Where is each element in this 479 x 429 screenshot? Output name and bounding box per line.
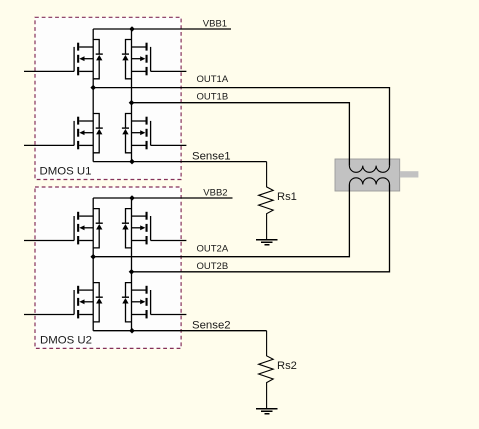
motor body [335, 159, 418, 191]
transistor U2 top-left [74, 209, 103, 248]
motor winding 1 (top coil) [349, 166, 389, 173]
gate lead U1 top-left [24, 70, 74, 72]
U2 left half-bridge column [92, 198, 94, 331]
node VBB1 junction [129, 26, 135, 32]
gate lead U2 top-right [151, 240, 187, 242]
svg-text:VBB2: VBB2 [203, 188, 227, 199]
DMOS U2 dashed box [35, 187, 181, 348]
node OUT1B junction [129, 100, 135, 106]
svg-text:Sense1: Sense1 [192, 150, 231, 162]
gate lead U1 bottom-left [24, 144, 74, 146]
gate lead U2 top-left [24, 240, 74, 242]
svg-text:OUT2B: OUT2B [197, 261, 229, 272]
U2 right half-bridge column [131, 198, 133, 331]
transistor U1 top-right [122, 40, 151, 79]
wire Sense1 rail [93, 161, 266, 163]
wire OUT2A net [93, 185, 349, 257]
gate lead U1 bottom-right [151, 144, 187, 146]
transistor U2 bottom-right [122, 283, 151, 322]
svg-text:OUT1A: OUT1A [197, 74, 229, 85]
svg-text:OUT2A: OUT2A [197, 243, 229, 254]
wire VBB1 rail [93, 28, 231, 30]
wire Sense2 rail [93, 330, 266, 332]
ground (Rs2) [256, 408, 277, 414]
resistor Rs1 [259, 162, 274, 240]
node Sense2 junction [129, 328, 135, 334]
resistor Rs2 [259, 331, 274, 409]
svg-text:VBB1: VBB1 [203, 19, 227, 30]
node OUT1A junction [90, 85, 96, 91]
wire OUT1B net [132, 103, 350, 166]
transistor U1 bottom-right [122, 114, 151, 153]
node VBB2 junction [129, 195, 135, 201]
DMOS U1 dashed box [35, 17, 181, 179]
svg-text:OUT1B: OUT1B [197, 92, 229, 103]
node OUT2B junction [129, 269, 135, 275]
transistor U1 top-left [74, 40, 103, 79]
transistor U2 top-right [122, 209, 151, 248]
svg-text:Sense2: Sense2 [192, 319, 231, 331]
gate lead U1 top-right [151, 70, 187, 72]
svg-text:Rs2: Rs2 [277, 360, 297, 372]
transistor U1 bottom-left [74, 114, 103, 153]
wire VBB2 rail [93, 197, 232, 199]
ground (Rs1) [256, 239, 277, 245]
svg-text:Rs1: Rs1 [277, 191, 297, 203]
gate lead U2 bottom-right [151, 314, 187, 316]
gate lead U2 bottom-left [24, 314, 74, 316]
node OUT2A junction [90, 254, 96, 260]
wire OUT2B net [132, 185, 390, 272]
U1 left half-bridge column [92, 29, 94, 162]
svg-text:DMOS U1: DMOS U1 [40, 165, 92, 177]
transistor U2 bottom-left [74, 283, 103, 322]
node Sense1 junction [129, 159, 135, 165]
U1 right half-bridge column [131, 29, 133, 162]
wire OUT1A net [93, 88, 389, 166]
motor winding 2 (bottom coil) [349, 178, 389, 185]
svg-text:DMOS U2: DMOS U2 [40, 334, 92, 346]
